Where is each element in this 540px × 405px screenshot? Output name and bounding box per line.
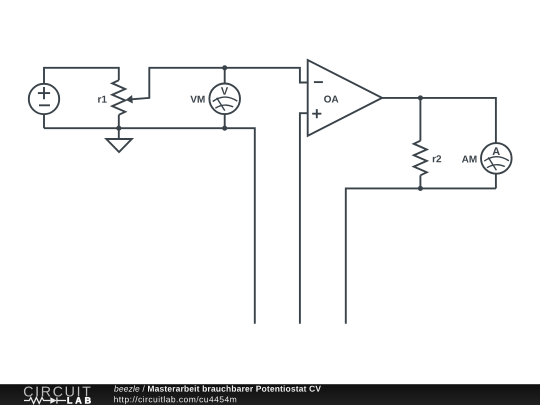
wire	[118, 115, 120, 128]
label r1	[98, 96, 107, 103]
wire	[419, 98, 421, 141]
CircuitLab logo diode triangle	[50, 397, 56, 404]
wire	[224, 68, 226, 84]
wire	[44, 128, 255, 324]
label r2	[433, 155, 441, 162]
footer title text	[114, 385, 321, 391]
voltage source V1	[29, 84, 59, 114]
label A of AM	[493, 147, 500, 155]
wire	[419, 175, 421, 188]
wire	[44, 68, 119, 84]
op-amp OA	[308, 60, 382, 136]
wire	[43, 114, 45, 128]
label VM	[190, 96, 204, 103]
junction node at VM top	[222, 65, 227, 70]
footer bar	[0, 384, 540, 405]
CircuitLab logo symbol (resistor + diode)	[24, 397, 66, 403]
r1 wiper arrow	[126, 95, 133, 104]
ground	[106, 128, 132, 152]
label AM	[462, 156, 477, 163]
potentiometer r1	[112, 80, 125, 115]
wire	[131, 68, 308, 100]
footer url text	[114, 396, 236, 404]
wire	[346, 188, 496, 323]
CircuitLab logo CIRCUIT	[24, 387, 91, 397]
junction node at VM bottom	[222, 126, 227, 131]
voltmeter VM	[209, 84, 240, 115]
wire	[224, 114, 226, 128]
junction node at r1 bottom	[116, 126, 121, 131]
wire	[300, 113, 308, 324]
wire	[382, 98, 496, 143]
junction node at r2 bottom	[418, 186, 423, 191]
ammeter AM	[481, 143, 512, 174]
wire	[495, 174, 497, 189]
label OA	[324, 96, 338, 103]
resistor r2	[414, 141, 427, 176]
label V of VM	[221, 87, 228, 95]
junction node at r2 top	[418, 95, 423, 100]
CircuitLab logo LAB	[68, 397, 91, 403]
